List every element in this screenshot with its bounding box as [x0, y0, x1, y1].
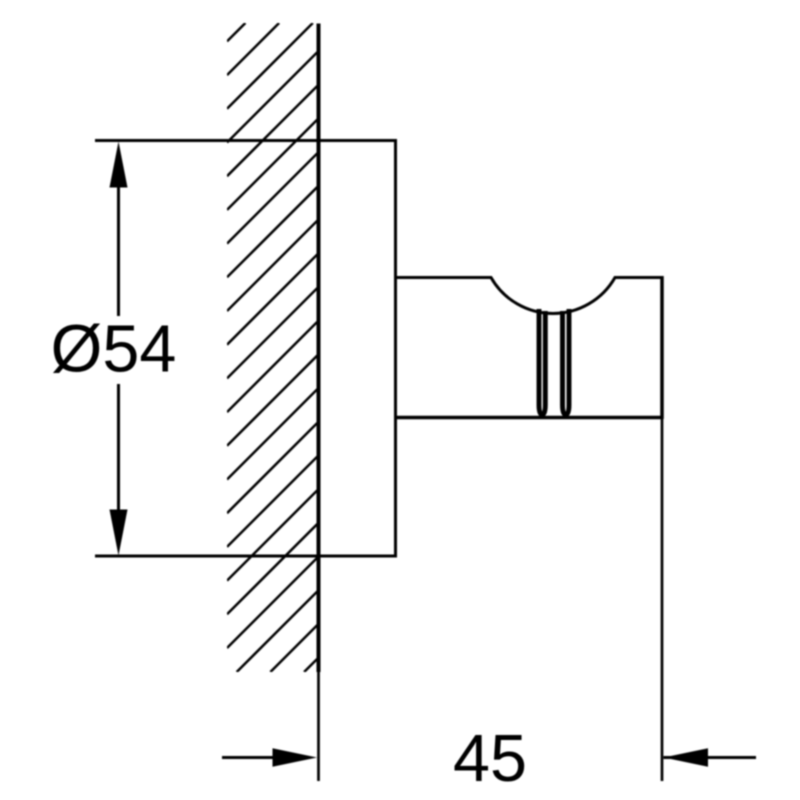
svg-text:45: 45: [453, 722, 527, 796]
svg-text:Ø54: Ø54: [51, 313, 177, 387]
